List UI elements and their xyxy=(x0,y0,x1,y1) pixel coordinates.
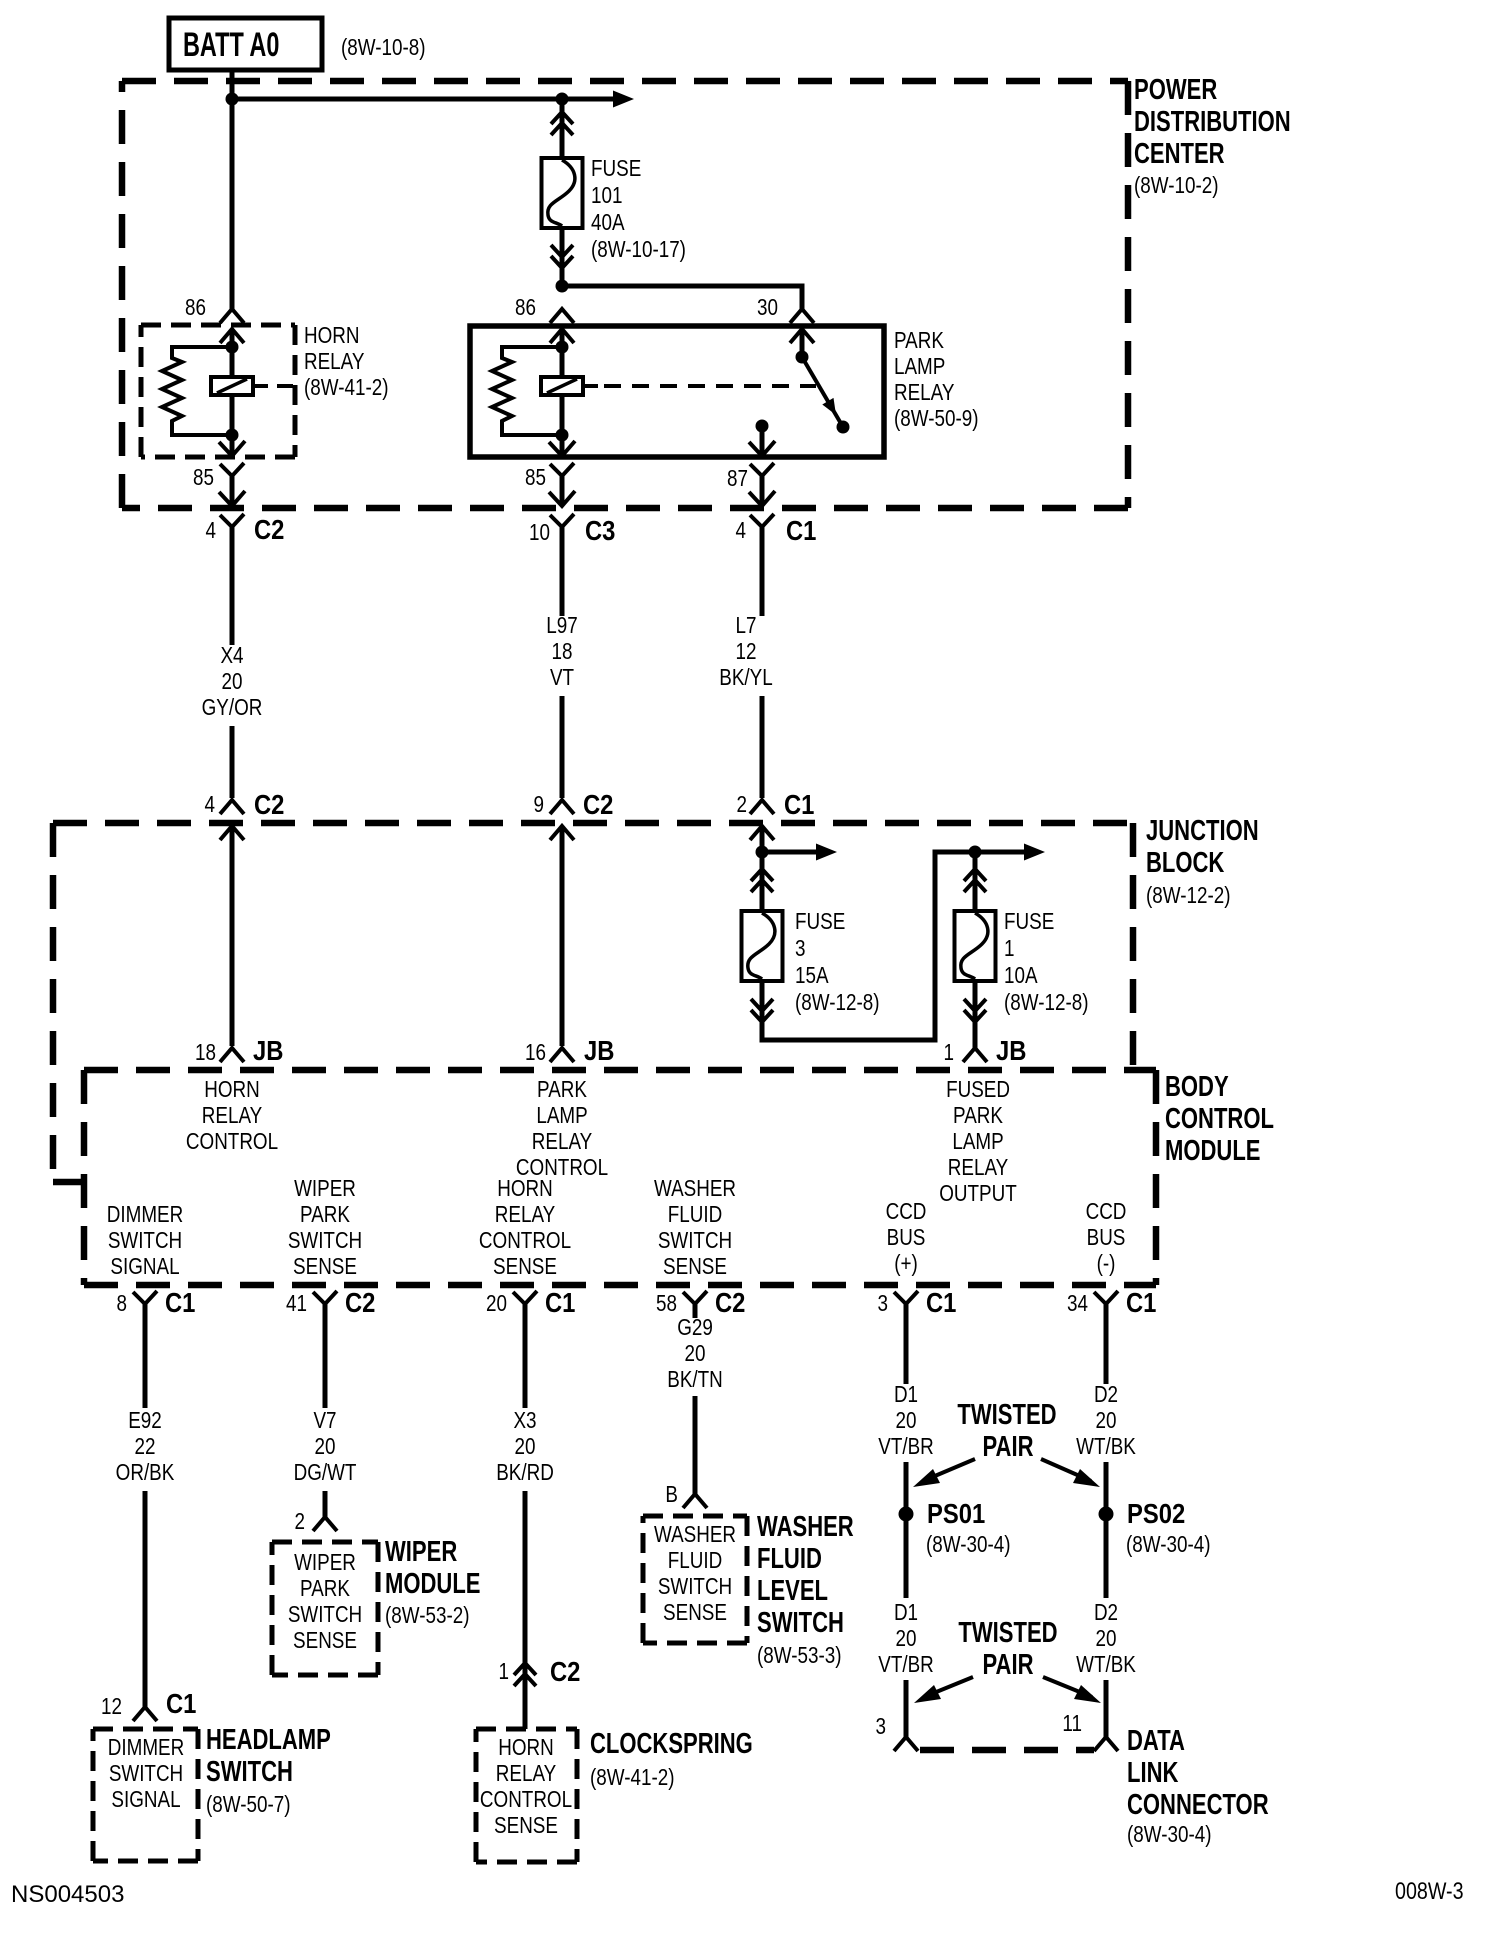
svg-text:4: 4 xyxy=(736,518,747,543)
junction block dashed box xyxy=(53,823,1133,1182)
pin 3 data link connector xyxy=(876,1714,918,1751)
svg-text:C1: C1 xyxy=(165,1286,195,1318)
svg-text:VT/BR: VT/BR xyxy=(878,1652,933,1677)
node switch contact xyxy=(837,421,850,434)
svg-text:MODULE: MODULE xyxy=(385,1568,480,1600)
label FUSE 3 15A (8W-12-8) xyxy=(795,909,879,1015)
svg-text:C1: C1 xyxy=(926,1286,956,1318)
svg-text:PAIR: PAIR xyxy=(982,1431,1033,1463)
svg-text:2: 2 xyxy=(737,792,747,817)
park lamp relay coil and resistor xyxy=(492,330,598,455)
svg-text:PS01: PS01 xyxy=(927,1497,985,1529)
svg-text:X3: X3 xyxy=(513,1408,536,1433)
arrow JB feed continues xyxy=(762,844,837,861)
wire into fuse 1 xyxy=(973,852,978,911)
svg-text:PS02: PS02 xyxy=(1127,1497,1185,1529)
label FUSE 101 40A (8W-10-17) xyxy=(591,156,686,262)
wire battery bus with arrow xyxy=(232,91,634,108)
wire G29 lower xyxy=(693,1396,698,1494)
svg-text:C2: C2 xyxy=(550,1655,580,1687)
svg-text:20: 20 xyxy=(1096,1626,1117,1651)
svg-text:(8W-30-4): (8W-30-4) xyxy=(926,1532,1010,1557)
svg-text:L97: L97 xyxy=(546,613,577,638)
label TWISTED PAIR lower xyxy=(958,1617,1057,1681)
svg-text:3: 3 xyxy=(878,1291,888,1316)
node label FUSED PARK LAMP RELAY OUTPUT xyxy=(939,1077,1017,1206)
inline connector below fuse 3 xyxy=(751,999,773,1022)
wire terminal 30 stub xyxy=(800,329,805,352)
svg-text:FUSE: FUSE xyxy=(591,156,641,181)
svg-text:SENSE: SENSE xyxy=(494,1813,558,1838)
svg-text:D1: D1 xyxy=(894,1600,918,1625)
svg-text:WIPER: WIPER xyxy=(385,1536,458,1568)
wire to park lamp relay terminal 30 xyxy=(562,286,802,309)
wire battery to horn relay xyxy=(230,99,235,309)
wire G29 upper xyxy=(693,1304,698,1318)
wire L97 lower xyxy=(560,696,565,798)
node label WIPER PARK SWITCH SENSE wiper module xyxy=(288,1550,362,1653)
svg-text:RELAY: RELAY xyxy=(532,1129,592,1154)
svg-text:20: 20 xyxy=(896,1626,917,1651)
wire D2 to data link connector xyxy=(1104,1680,1109,1737)
svg-text:SIGNAL: SIGNAL xyxy=(110,1254,179,1279)
wire fuse 101 output xyxy=(560,228,565,286)
label PS02 (8W-30-4) xyxy=(1126,1497,1210,1557)
svg-text:SWITCH: SWITCH xyxy=(108,1228,182,1253)
inline connector 1 C2 clockspring xyxy=(499,1655,581,1687)
wire JB park lamp column xyxy=(560,826,565,1046)
splice PS02 xyxy=(1099,1507,1114,1522)
fuse 3 xyxy=(742,911,783,981)
svg-text:MODULE: MODULE xyxy=(1165,1135,1260,1167)
svg-text:HORN: HORN xyxy=(498,1735,553,1760)
svg-text:PARK: PARK xyxy=(894,328,944,353)
connector 8 C1 BCM xyxy=(117,1286,196,1318)
node switch common 30 xyxy=(796,351,809,364)
data link connector dashed edge xyxy=(920,1747,1094,1754)
svg-text:VT/BR: VT/BR xyxy=(878,1434,933,1459)
inline connector below fuse 101 xyxy=(551,245,573,268)
svg-text:12: 12 xyxy=(101,1694,122,1719)
svg-text:C1: C1 xyxy=(784,788,814,820)
fuse 101 xyxy=(542,158,583,228)
svg-text:11: 11 xyxy=(1062,1711,1082,1736)
svg-text:101: 101 xyxy=(591,183,622,208)
svg-text:DIMMER: DIMMER xyxy=(107,1202,183,1227)
svg-text:LEVEL: LEVEL xyxy=(757,1575,828,1607)
svg-text:HEADLAMP: HEADLAMP xyxy=(206,1724,331,1756)
svg-text:HORN: HORN xyxy=(204,1077,259,1102)
svg-text:JB: JB xyxy=(996,1034,1026,1066)
svg-text:CONNECTOR: CONNECTOR xyxy=(1127,1789,1269,1821)
clockspring dashed box xyxy=(476,1729,577,1862)
wire label L7 12 BK/YL xyxy=(719,613,772,690)
connector 2 wiper module xyxy=(295,1509,337,1534)
svg-text:FLUID: FLUID xyxy=(668,1548,722,1573)
svg-text:SENSE: SENSE xyxy=(663,1600,727,1625)
svg-text:TWISTED: TWISTED xyxy=(957,1399,1056,1431)
svg-text:20: 20 xyxy=(486,1291,507,1316)
connector 3 C1 BCM xyxy=(878,1286,957,1318)
label PS01 (8W-30-4) xyxy=(926,1497,1010,1557)
inline connector above fuse 3 xyxy=(751,869,773,892)
wire label E92 22 OR/BK xyxy=(116,1408,175,1485)
svg-text:4: 4 xyxy=(205,792,216,817)
wire label D1 20 VT/BR xyxy=(878,1382,933,1459)
arrow twisted pair upper right xyxy=(1041,1459,1100,1487)
svg-text:(8W-53-3): (8W-53-3) xyxy=(757,1643,841,1668)
svg-text:SENSE: SENSE xyxy=(293,1628,357,1653)
svg-text:FUSE: FUSE xyxy=(795,909,845,934)
svg-text:2: 2 xyxy=(295,1509,305,1534)
svg-text:E92: E92 xyxy=(128,1408,162,1433)
svg-text:BUS: BUS xyxy=(887,1225,926,1250)
battery feed box BATT A0 xyxy=(169,18,322,70)
wire D1 below splice xyxy=(904,1521,909,1598)
pin 85 park lamp relay xyxy=(525,441,575,490)
wire X4 upper xyxy=(230,476,235,645)
svg-text:RELAY: RELAY xyxy=(495,1202,555,1227)
pin 16 JB xyxy=(525,1034,614,1066)
svg-text:85: 85 xyxy=(525,465,546,490)
svg-text:LAMP: LAMP xyxy=(536,1103,587,1128)
pin 86 horn relay xyxy=(185,295,244,343)
svg-text:SWITCH: SWITCH xyxy=(757,1607,844,1639)
wire E92 lower xyxy=(143,1491,148,1707)
svg-text:RELAY: RELAY xyxy=(894,380,954,405)
fuse 1 xyxy=(955,911,996,981)
wire to splice PS01 xyxy=(904,1462,909,1507)
svg-text:D2: D2 xyxy=(1094,1382,1118,1407)
svg-text:WIPER: WIPER xyxy=(294,1550,356,1575)
node label WASHER FLUID SWITCH SENSE washer switch xyxy=(654,1522,736,1625)
svg-text:58: 58 xyxy=(656,1291,677,1316)
svg-text:WT/BK: WT/BK xyxy=(1076,1434,1136,1459)
svg-text:C2: C2 xyxy=(715,1286,745,1318)
node JB fuse 3 feed xyxy=(756,846,769,859)
svg-text:86: 86 xyxy=(185,295,206,320)
svg-text:C1: C1 xyxy=(166,1687,196,1719)
svg-text:FLUID: FLUID xyxy=(668,1202,722,1227)
svg-text:(8W-10-2): (8W-10-2) xyxy=(1134,173,1218,198)
svg-text:12: 12 xyxy=(736,639,757,664)
svg-text:TWISTED: TWISTED xyxy=(958,1617,1057,1649)
svg-text:(8W-50-7): (8W-50-7) xyxy=(206,1792,290,1817)
label WASHER FLUID LEVEL SWITCH (8W-53-3) xyxy=(757,1511,854,1668)
svg-text:NS004503: NS004503 xyxy=(11,1881,124,1908)
wire label D1 20 VT/BR lower xyxy=(878,1600,933,1677)
svg-text:20: 20 xyxy=(685,1341,706,1366)
svg-text:JB: JB xyxy=(584,1034,614,1066)
svg-text:18: 18 xyxy=(552,639,573,664)
label JUNCTION BLOCK (8W-12-2) xyxy=(1146,815,1259,908)
svg-text:DATA: DATA xyxy=(1127,1725,1185,1757)
svg-text:(8W-30-4): (8W-30-4) xyxy=(1127,1822,1211,1847)
wire label X3 20 BK/RD xyxy=(496,1408,554,1485)
svg-text:WASHER: WASHER xyxy=(654,1522,736,1547)
pin 86 park lamp relay xyxy=(515,295,574,343)
connector 41 C2 BCM xyxy=(286,1286,375,1318)
wire to fuse 101 xyxy=(560,99,565,158)
svg-text:16: 16 xyxy=(525,1040,546,1065)
svg-text:C1: C1 xyxy=(786,514,816,546)
wire D2 below splice xyxy=(1104,1521,1109,1598)
svg-text:OUTPUT: OUTPUT xyxy=(939,1181,1017,1206)
svg-text:20: 20 xyxy=(896,1408,917,1433)
node battery bus junction xyxy=(226,93,239,106)
svg-text:CONTROL: CONTROL xyxy=(186,1129,278,1154)
wire label X4 20 GY/OR xyxy=(202,643,263,720)
svg-text:(8W-10-17): (8W-10-17) xyxy=(591,237,686,262)
wire label D2 20 WT/BK xyxy=(1076,1382,1136,1459)
node label WASHER FLUID SWITCH SENSE xyxy=(654,1176,736,1279)
svg-text:(8W-50-9): (8W-50-9) xyxy=(894,406,978,431)
horn relay coil and resistor xyxy=(162,330,268,455)
switch arm with arrowhead xyxy=(802,357,843,427)
svg-text:LAMP: LAMP xyxy=(952,1129,1003,1154)
body control module dashed box xyxy=(84,1070,1156,1285)
svg-text:B: B xyxy=(665,1482,678,1507)
wiper module dashed box xyxy=(272,1542,378,1675)
svg-text:(-): (-) xyxy=(1097,1251,1116,1276)
svg-text:CONTROL: CONTROL xyxy=(480,1787,572,1812)
svg-text:SWITCH: SWITCH xyxy=(288,1602,362,1627)
svg-text:4: 4 xyxy=(206,518,217,543)
connector 10 C3 PDC xyxy=(529,491,615,546)
svg-text:BK/YL: BK/YL xyxy=(719,665,772,690)
park lamp relay linkage dashed line xyxy=(604,384,816,388)
svg-text:10A: 10A xyxy=(1004,963,1038,988)
power distribution center dashed box xyxy=(122,81,1128,508)
svg-text:JUNCTION: JUNCTION xyxy=(1146,815,1259,847)
svg-text:C2: C2 xyxy=(345,1286,375,1318)
connector 4 C2 junction block xyxy=(205,788,285,840)
svg-text:C2: C2 xyxy=(583,788,613,820)
svg-text:22: 22 xyxy=(135,1434,156,1459)
svg-text:CCD: CCD xyxy=(886,1199,927,1224)
connector B washer fluid switch xyxy=(665,1482,707,1508)
svg-text:POWER: POWER xyxy=(1134,74,1218,106)
svg-text:9: 9 xyxy=(534,792,544,817)
label FUSE 1 10A (8W-12-8) xyxy=(1004,909,1088,1015)
svg-text:OR/BK: OR/BK xyxy=(116,1460,175,1485)
svg-text:CCD: CCD xyxy=(1086,1199,1127,1224)
wire to splice PS02 xyxy=(1104,1462,1109,1507)
wire D1 to data link connector xyxy=(904,1680,909,1737)
connector 34 C1 BCM xyxy=(1067,1286,1156,1318)
svg-text:SENSE: SENSE xyxy=(293,1254,357,1279)
svg-text:WIPER: WIPER xyxy=(294,1176,356,1201)
wire X4 lower xyxy=(230,726,235,798)
wire fuse 1 output xyxy=(973,981,978,1048)
svg-text:WASHER: WASHER xyxy=(757,1511,854,1543)
svg-text:X4: X4 xyxy=(220,643,243,668)
pin 1 JB xyxy=(944,1034,1027,1066)
horn relay dashed box xyxy=(141,325,295,457)
svg-text:WASHER: WASHER xyxy=(654,1176,736,1201)
svg-text:SWITCH: SWITCH xyxy=(658,1228,732,1253)
label HORN RELAY (8W-41-2) xyxy=(304,323,388,400)
arrow twisted pair lower right xyxy=(1043,1677,1101,1703)
node label PARK LAMP RELAY CONTROL xyxy=(516,1077,608,1180)
node label HORN RELAY CONTROL SENSE xyxy=(479,1176,571,1279)
node label HORN RELAY CONTROL SENSE clockspring xyxy=(480,1735,572,1838)
svg-text:18: 18 xyxy=(195,1040,216,1065)
svg-text:SWITCH: SWITCH xyxy=(109,1761,183,1786)
svg-text:3: 3 xyxy=(876,1714,886,1739)
svg-text:FUSED: FUSED xyxy=(946,1077,1010,1102)
svg-text:15A: 15A xyxy=(795,963,829,988)
arrow twisted pair lower left xyxy=(914,1677,973,1703)
wire D2 upper xyxy=(1104,1304,1109,1384)
svg-text:8: 8 xyxy=(117,1291,127,1316)
pin 85 horn relay xyxy=(193,441,245,490)
svg-text:DIMMER: DIMMER xyxy=(108,1735,184,1760)
svg-text:VT: VT xyxy=(550,665,574,690)
wire L7 lower xyxy=(760,696,765,798)
wire E92 upper xyxy=(143,1304,148,1408)
svg-text:BATT A0: BATT A0 xyxy=(183,27,279,64)
svg-text:SENSE: SENSE xyxy=(663,1254,727,1279)
wire V7 upper xyxy=(323,1304,328,1408)
svg-text:(8W-41-2): (8W-41-2) xyxy=(590,1765,674,1790)
inline connector above fuse 101 xyxy=(551,112,573,135)
svg-text:DG/WT: DG/WT xyxy=(294,1460,357,1485)
wire label G29 20 BK/TN xyxy=(667,1315,722,1392)
svg-text:CONTROL: CONTROL xyxy=(479,1228,571,1253)
svg-text:20: 20 xyxy=(515,1434,536,1459)
svg-text:SWITCH: SWITCH xyxy=(658,1574,732,1599)
svg-text:(8W-12-2): (8W-12-2) xyxy=(1146,883,1230,908)
svg-text:FUSE: FUSE xyxy=(1004,909,1054,934)
svg-text:1: 1 xyxy=(1004,936,1014,961)
node label CCD BUS plus xyxy=(886,1199,927,1276)
svg-text:RELAY: RELAY xyxy=(496,1761,556,1786)
wire terminal 87 xyxy=(760,430,765,455)
wire X3 lower xyxy=(523,1491,528,1729)
svg-text:85: 85 xyxy=(193,465,214,490)
node terminal 87 contact xyxy=(756,420,769,433)
label HEADLAMP SWITCH (8W-50-7) xyxy=(206,1724,331,1817)
node label DIMMER SWITCH SIGNAL xyxy=(107,1202,183,1279)
svg-text:CONTROL: CONTROL xyxy=(1165,1103,1274,1135)
svg-text:BK/TN: BK/TN xyxy=(667,1367,722,1392)
pin 18 JB xyxy=(195,1034,283,1066)
svg-text:V7: V7 xyxy=(313,1408,336,1433)
label TWISTED PAIR upper xyxy=(957,1399,1056,1463)
node label HORN RELAY CONTROL xyxy=(186,1077,278,1154)
svg-text:BODY: BODY xyxy=(1165,1071,1229,1103)
svg-text:GY/OR: GY/OR xyxy=(202,695,263,720)
svg-text:CLOCKSPRING: CLOCKSPRING xyxy=(590,1728,753,1760)
node label WIPER PARK SWITCH SENSE xyxy=(288,1176,362,1279)
svg-text:87: 87 xyxy=(727,466,748,491)
svg-text:RELAY: RELAY xyxy=(948,1155,1008,1180)
svg-text:WT/BK: WT/BK xyxy=(1076,1652,1136,1677)
svg-text:C1: C1 xyxy=(545,1286,575,1318)
svg-text:(8W-10-8): (8W-10-8) xyxy=(341,35,425,60)
svg-text:PARK: PARK xyxy=(537,1077,587,1102)
svg-text:G29: G29 xyxy=(677,1315,713,1340)
svg-text:RELAY: RELAY xyxy=(304,349,364,374)
node fuse feed junction xyxy=(556,93,569,106)
svg-text:BLOCK: BLOCK xyxy=(1146,847,1225,879)
svg-text:FLUID: FLUID xyxy=(757,1543,822,1575)
pin 11 data link connector xyxy=(1062,1711,1118,1751)
headlamp switch dashed box xyxy=(93,1729,198,1861)
svg-text:008W-3: 008W-3 xyxy=(1395,1877,1464,1904)
svg-text:HORN: HORN xyxy=(304,323,359,348)
svg-text:(8W-53-2): (8W-53-2) xyxy=(385,1603,469,1628)
svg-text:BUS: BUS xyxy=(1087,1225,1126,1250)
inline connector below fuse 1 xyxy=(964,999,986,1022)
connector 2 C1 junction block xyxy=(737,788,815,840)
svg-text:86: 86 xyxy=(515,295,536,320)
svg-text:10: 10 xyxy=(529,520,550,545)
svg-text:SENSE: SENSE xyxy=(493,1254,557,1279)
horn relay linkage dash xyxy=(277,384,293,388)
wire X3 upper xyxy=(523,1304,528,1408)
svg-text:PARK: PARK xyxy=(300,1202,350,1227)
connector 4 C1 PDC xyxy=(736,491,817,546)
svg-text:C2: C2 xyxy=(254,513,284,545)
node label DIMMER SWITCH SIGNAL headlamp xyxy=(108,1735,184,1812)
wire fuse 3 output loop to fuse 1 feed xyxy=(762,852,975,1040)
svg-text:34: 34 xyxy=(1067,1291,1088,1316)
washer fluid switch dashed box xyxy=(643,1516,747,1643)
arrow JB fuse 1 feed continues xyxy=(975,844,1045,861)
park lamp relay solid box xyxy=(470,326,884,457)
wire L7 upper xyxy=(760,476,765,616)
splice PS01 xyxy=(899,1507,914,1522)
svg-text:PARK: PARK xyxy=(300,1576,350,1601)
svg-text:(8W-41-2): (8W-41-2) xyxy=(304,375,388,400)
wire JB horn relay control column xyxy=(230,826,235,1046)
svg-text:PARK: PARK xyxy=(953,1103,1003,1128)
wire JB fused feed drop xyxy=(760,826,765,852)
svg-text:CENTER: CENTER xyxy=(1134,138,1225,170)
label DATA LINK CONNECTOR (8W-30-4) xyxy=(1127,1725,1269,1847)
svg-text:L7: L7 xyxy=(736,613,757,638)
connector 9 C2 junction block xyxy=(534,788,614,840)
svg-text:(+): (+) xyxy=(894,1251,918,1276)
svg-text:40A: 40A xyxy=(591,210,625,235)
connector 58 C2 BCM xyxy=(656,1286,745,1318)
node label CCD BUS minus xyxy=(1086,1199,1127,1276)
svg-text:20: 20 xyxy=(222,669,243,694)
svg-text:C1: C1 xyxy=(1126,1286,1156,1318)
svg-text:C2: C2 xyxy=(254,788,284,820)
svg-text:20: 20 xyxy=(1096,1408,1117,1433)
label PARK LAMP RELAY (8W-50-9) xyxy=(894,328,978,431)
wire into fuse 3 xyxy=(760,852,765,911)
svg-text:LINK: LINK xyxy=(1127,1757,1179,1789)
svg-text:HORN: HORN xyxy=(497,1176,552,1201)
connector 4 C2 PDC xyxy=(206,491,285,545)
svg-text:SWITCH: SWITCH xyxy=(206,1756,293,1788)
wire battery drop xyxy=(230,70,235,99)
svg-text:BK/RD: BK/RD xyxy=(496,1460,554,1485)
wire label V7 20 DG/WT xyxy=(294,1408,357,1485)
connector 12 C1 headlamp switch xyxy=(101,1687,196,1721)
svg-text:(8W-12-8): (8W-12-8) xyxy=(795,990,879,1015)
svg-text:3: 3 xyxy=(795,936,805,961)
svg-text:1: 1 xyxy=(944,1040,954,1065)
pin 87 park lamp relay xyxy=(727,441,775,491)
svg-text:SWITCH: SWITCH xyxy=(288,1228,362,1253)
wire D1 upper xyxy=(904,1304,909,1384)
svg-text:(8W-30-4): (8W-30-4) xyxy=(1126,1532,1210,1557)
